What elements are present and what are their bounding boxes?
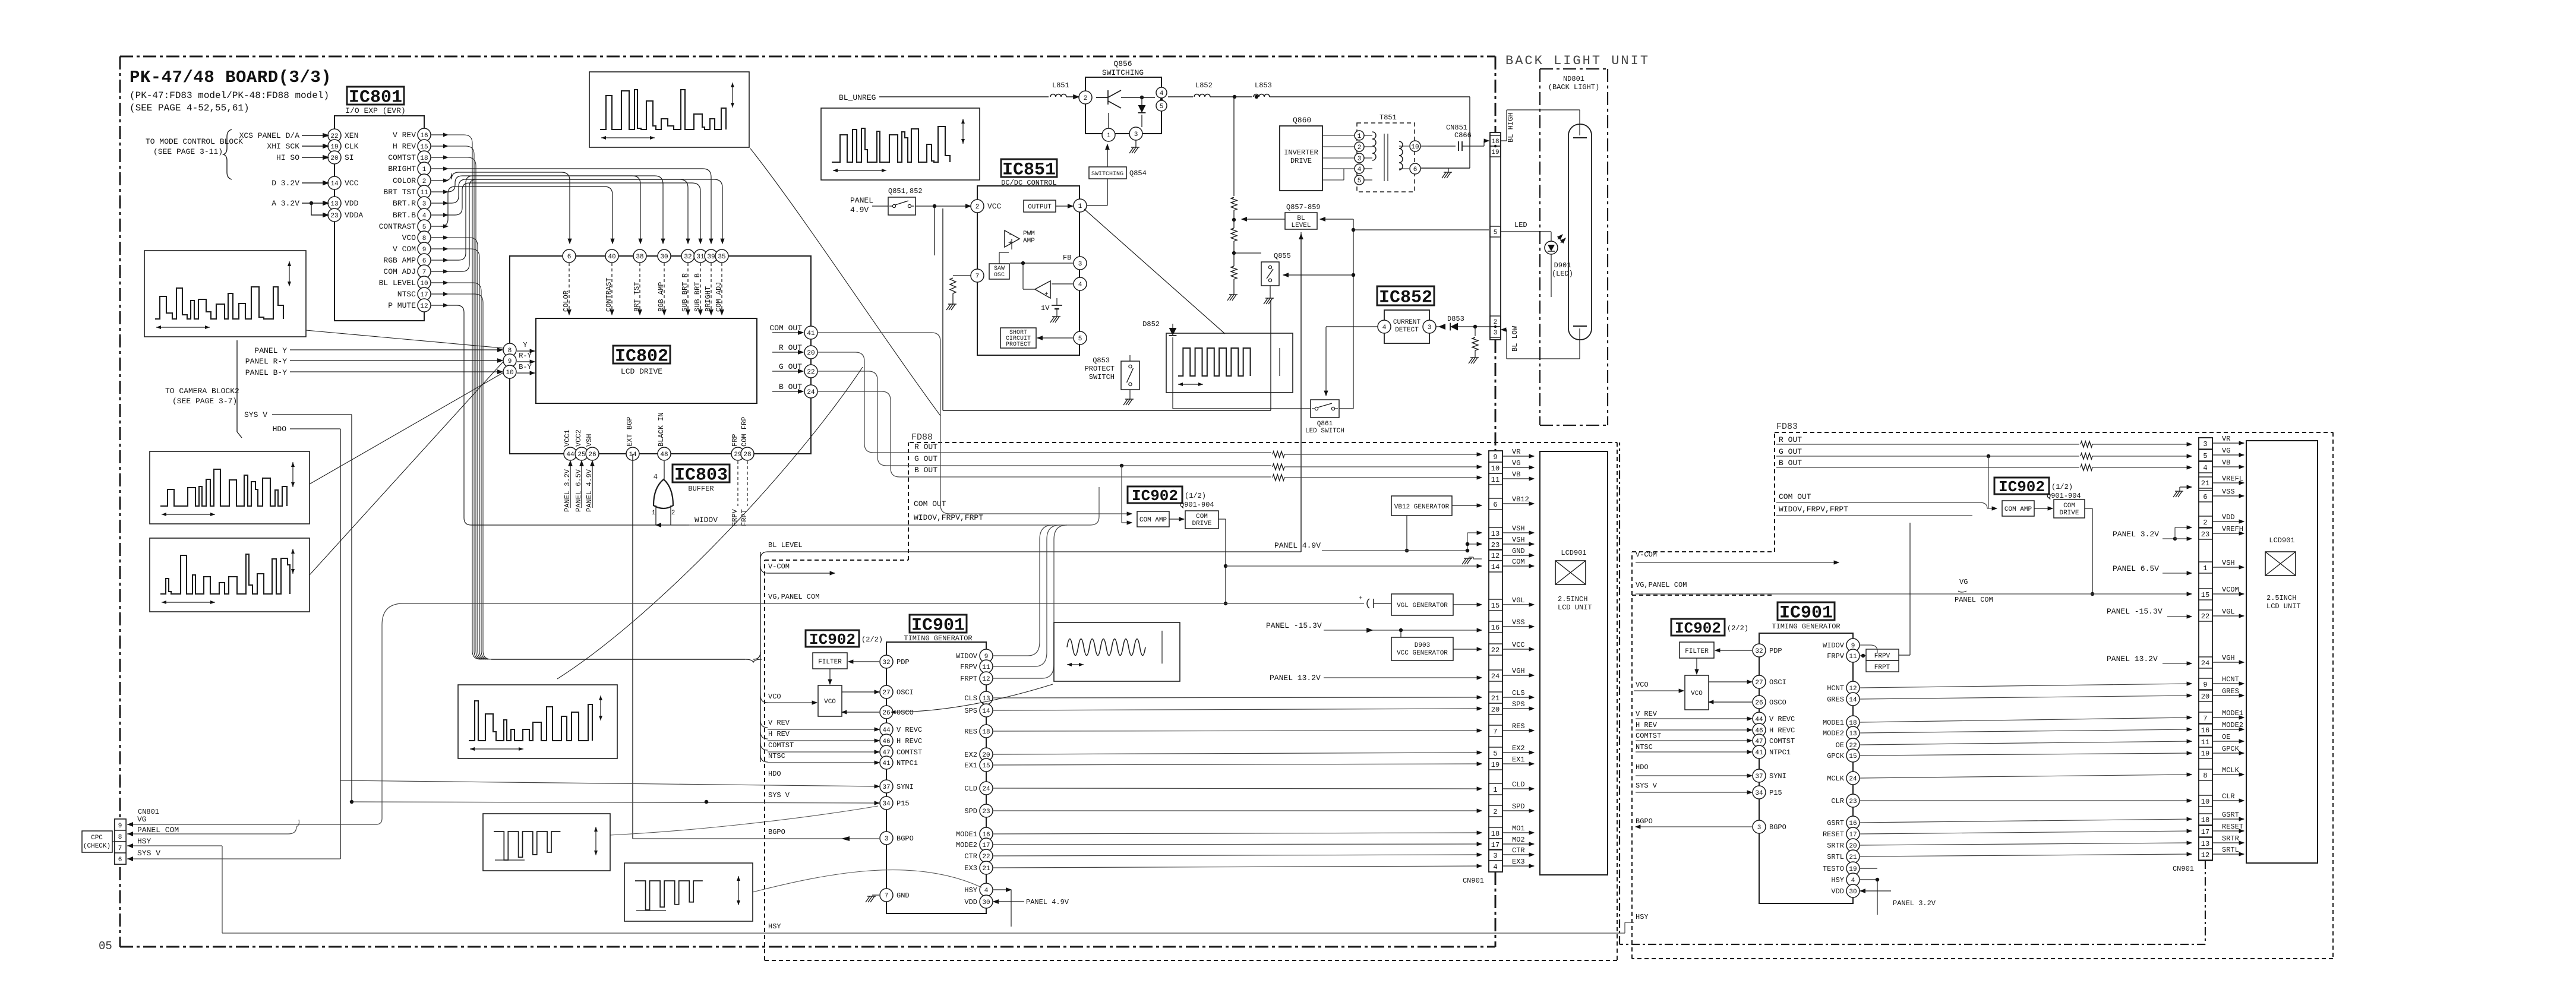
svg-text:V REV: V REV — [768, 719, 790, 727]
svg-text:MCLK: MCLK — [2222, 766, 2240, 775]
svg-text:14: 14 — [330, 181, 339, 188]
svg-text:WIDOV: WIDOV — [1823, 641, 1845, 650]
svg-text:HI SO: HI SO — [276, 153, 299, 162]
svg-text:3: 3 — [1078, 261, 1082, 268]
svg-text:CN901: CN901 — [2173, 865, 2194, 873]
svg-text:FRPV: FRPV — [1874, 653, 1890, 660]
svg-text:2: 2 — [976, 204, 980, 211]
svg-text:B-Y: B-Y — [519, 363, 532, 371]
svg-text:BUFFER: BUFFER — [688, 485, 714, 493]
svg-text:(LED): (LED) — [1552, 270, 1573, 278]
svg-text:7: 7 — [976, 273, 980, 280]
svg-text:R OUT: R OUT — [779, 343, 802, 352]
svg-text:OSCO: OSCO — [896, 709, 914, 717]
svg-text:16: 16 — [1491, 624, 1499, 632]
svg-text:RGB AMP: RGB AMP — [657, 282, 665, 312]
svg-text:34: 34 — [882, 801, 891, 808]
svg-text:R OUT: R OUT — [1779, 435, 1802, 444]
svg-text:31: 31 — [696, 254, 705, 261]
svg-text:P15: P15 — [1769, 789, 1782, 797]
svg-text:SAW: SAW — [994, 265, 1005, 272]
svg-text:CLR: CLR — [1831, 797, 1844, 805]
svg-text:PANEL Y: PANEL Y — [254, 346, 287, 355]
svg-text:7: 7 — [885, 893, 889, 900]
svg-text:SRTL: SRTL — [1827, 853, 1844, 861]
svg-text:G OUT: G OUT — [914, 454, 937, 463]
svg-text:PANEL 13.2V: PANEL 13.2V — [2107, 655, 2158, 663]
svg-text:11: 11 — [1849, 653, 1857, 660]
svg-text:20: 20 — [807, 350, 815, 357]
svg-text:7: 7 — [1493, 728, 1497, 736]
svg-text:VDD: VDD — [964, 898, 977, 906]
svg-text:4: 4 — [1493, 863, 1497, 871]
svg-text:RESET: RESET — [1823, 830, 1844, 839]
svg-text:Q856: Q856 — [1113, 59, 1132, 68]
svg-text:BL LOW: BL LOW — [1511, 325, 1519, 352]
svg-text:COLOR: COLOR — [393, 176, 416, 185]
svg-text:39: 39 — [707, 254, 715, 261]
svg-text:A 3.2V: A 3.2V — [272, 199, 299, 208]
svg-text:(2/2): (2/2) — [861, 636, 883, 644]
svg-text:VGL: VGL — [2222, 608, 2235, 616]
svg-text:22: 22 — [1849, 742, 1857, 750]
svg-text:20: 20 — [1491, 706, 1499, 714]
svg-text:NTSC: NTSC — [397, 290, 416, 299]
svg-text:PANEL 6.5V: PANEL 6.5V — [574, 469, 583, 512]
svg-text:HSY: HSY — [137, 837, 151, 846]
svg-text:MODE2: MODE2 — [956, 841, 977, 849]
svg-text:H REV: H REV — [768, 730, 790, 738]
svg-text:MODE1: MODE1 — [956, 830, 977, 839]
svg-text:WIDOV,FRPV,FRPT: WIDOV,FRPV,FRPT — [1779, 505, 1848, 514]
svg-text:MODE1: MODE1 — [1823, 719, 1844, 727]
svg-text:GRES: GRES — [2222, 687, 2239, 696]
svg-text:VDDA: VDDA — [345, 211, 363, 220]
svg-text:D903: D903 — [1415, 642, 1430, 649]
svg-text:CONTRAST: CONTRAST — [379, 222, 416, 231]
svg-text:15: 15 — [420, 144, 428, 151]
svg-text:2: 2 — [671, 510, 675, 517]
svg-text:IC802: IC802 — [615, 347, 668, 367]
svg-text:34: 34 — [1755, 790, 1763, 797]
svg-text:VCC1: VCC1 — [563, 429, 572, 447]
svg-text:FILTER: FILTER — [1685, 648, 1709, 655]
svg-text:VCO: VCO — [402, 233, 416, 242]
svg-text:(1/2): (1/2) — [2051, 483, 2073, 491]
svg-text:IC901: IC901 — [911, 616, 965, 636]
svg-text:L852: L852 — [1195, 81, 1213, 90]
svg-text:IC902: IC902 — [1132, 487, 1178, 505]
svg-text:37: 37 — [1755, 773, 1763, 780]
svg-text:MCLK: MCLK — [1827, 775, 1845, 783]
svg-text:COMTST: COMTST — [1769, 737, 1795, 745]
svg-text:VDD: VDD — [2222, 513, 2235, 521]
svg-text:4: 4 — [1160, 90, 1164, 97]
svg-text:VSH: VSH — [1512, 524, 1525, 533]
svg-text:SYS V: SYS V — [137, 849, 160, 858]
svg-text:20: 20 — [330, 155, 338, 162]
svg-text:PANEL 4.9V: PANEL 4.9V — [1274, 541, 1321, 550]
svg-text:SPS: SPS — [1512, 700, 1525, 709]
svg-text:BACK LIGHT UNIT: BACK LIGHT UNIT — [1505, 53, 1650, 68]
svg-text:HCNT: HCNT — [2222, 675, 2239, 684]
svg-text:2: 2 — [1493, 808, 1497, 816]
svg-text:VB: VB — [2222, 459, 2230, 467]
svg-text:VCC: VCC — [1512, 641, 1525, 649]
svg-text:Y: Y — [523, 341, 527, 349]
svg-text:6: 6 — [118, 856, 122, 864]
svg-text:5: 5 — [1078, 336, 1082, 343]
svg-text:4: 4 — [1851, 877, 1855, 884]
svg-text:FRPT: FRPT — [740, 509, 749, 526]
svg-text:OUTPUT: OUTPUT — [1028, 204, 1052, 211]
svg-text:8: 8 — [508, 347, 512, 355]
svg-text:18: 18 — [2201, 816, 2209, 824]
svg-text:BRIGHT: BRIGHT — [704, 286, 712, 312]
svg-text:+: + — [1044, 291, 1049, 298]
svg-text:38: 38 — [636, 254, 643, 261]
svg-text:13: 13 — [1491, 530, 1499, 538]
svg-text:T851: T851 — [1379, 113, 1397, 122]
svg-text:COM ADJ: COM ADJ — [715, 282, 723, 312]
svg-text:MODE2: MODE2 — [1823, 729, 1844, 738]
svg-text:VSH: VSH — [585, 434, 594, 447]
svg-text:HDO: HDO — [273, 425, 287, 434]
svg-text:19: 19 — [1491, 149, 1499, 156]
svg-text:BL HIGH: BL HIGH — [1507, 113, 1515, 143]
svg-text:COMTST: COMTST — [1636, 732, 1661, 740]
svg-text:GSRT: GSRT — [2222, 811, 2239, 819]
svg-text:COM: COM — [2063, 502, 2075, 510]
svg-text:14: 14 — [982, 708, 990, 715]
svg-text:PROTECT: PROTECT — [1085, 365, 1115, 373]
svg-text:PANEL R-Y: PANEL R-Y — [245, 357, 287, 366]
svg-text:19: 19 — [1849, 866, 1857, 873]
svg-text:(SEE PAGE 4-52,55,61): (SEE PAGE 4-52,55,61) — [130, 103, 250, 113]
svg-text:10: 10 — [506, 369, 513, 377]
svg-text:8: 8 — [118, 834, 122, 841]
svg-text:(PK-47:FD83 model/PK-48:FD88 m: (PK-47:FD83 model/PK-48:FD88 model) — [130, 90, 329, 101]
svg-text:VB: VB — [1512, 470, 1520, 479]
svg-text:WIDOV: WIDOV — [956, 652, 978, 660]
svg-text:LCD DRIVE: LCD DRIVE — [621, 367, 662, 376]
svg-text:V REV: V REV — [1636, 710, 1658, 718]
svg-text:13: 13 — [1849, 731, 1857, 738]
svg-text:OSCI: OSCI — [1769, 678, 1786, 687]
svg-text:VCO: VCO — [1691, 690, 1703, 697]
svg-text:SYNI: SYNI — [896, 783, 914, 791]
svg-text:CURRENT: CURRENT — [1393, 319, 1421, 326]
svg-text:19: 19 — [1491, 761, 1499, 769]
svg-text:R-Y: R-Y — [519, 352, 532, 360]
svg-text:Q855: Q855 — [1274, 252, 1291, 260]
svg-text:47: 47 — [1755, 738, 1763, 745]
svg-text:COM FRP: COM FRP — [740, 417, 749, 447]
svg-text:VCO: VCO — [768, 693, 781, 701]
svg-text:4: 4 — [654, 473, 658, 481]
svg-text:BRT.B: BRT.B — [393, 211, 416, 220]
svg-text:4: 4 — [1358, 166, 1362, 173]
svg-text:4: 4 — [1382, 324, 1387, 331]
svg-text:BL: BL — [1297, 215, 1305, 222]
svg-text:6: 6 — [567, 254, 572, 261]
svg-text:CLK: CLK — [345, 142, 359, 151]
svg-text:(1/2): (1/2) — [1185, 492, 1206, 500]
svg-text:AMP: AMP — [1023, 238, 1035, 245]
svg-text:WIDOV,FRPV,FRPT: WIDOV,FRPV,FRPT — [914, 513, 983, 522]
svg-text:NTSC: NTSC — [1636, 743, 1653, 751]
svg-text:17: 17 — [1491, 841, 1499, 849]
svg-text:46: 46 — [882, 738, 890, 745]
svg-text:2: 2 — [422, 178, 427, 185]
svg-text:FRPT: FRPT — [1874, 664, 1890, 671]
svg-text:L853: L853 — [1255, 81, 1272, 90]
svg-text:2.5INCH: 2.5INCH — [2266, 594, 2296, 602]
svg-text:1: 1 — [1358, 133, 1362, 140]
svg-text:28: 28 — [743, 451, 751, 459]
svg-text:16: 16 — [982, 832, 990, 839]
svg-text:V REVC: V REVC — [896, 726, 922, 734]
svg-text:BRT TST: BRT TST — [633, 282, 641, 312]
svg-text:IC851: IC851 — [1002, 160, 1056, 181]
svg-text:VSS: VSS — [1512, 618, 1525, 627]
svg-text:VSH: VSH — [2222, 559, 2235, 567]
svg-text:21: 21 — [982, 865, 990, 873]
svg-text:COM: COM — [1512, 558, 1525, 566]
svg-text:CLD: CLD — [1512, 780, 1525, 789]
svg-text:PANEL 4.9V: PANEL 4.9V — [1026, 898, 1069, 906]
svg-text:22: 22 — [982, 854, 990, 861]
svg-text:41: 41 — [807, 330, 815, 337]
svg-text:B OUT: B OUT — [1779, 459, 1802, 467]
svg-text:RES: RES — [964, 728, 977, 736]
svg-text:13: 13 — [330, 201, 338, 208]
svg-text:41: 41 — [1755, 750, 1763, 757]
svg-text:COMTST: COMTST — [388, 153, 416, 162]
svg-text:HSY: HSY — [1636, 913, 1649, 921]
svg-text:MO2: MO2 — [1512, 836, 1525, 844]
svg-text:6: 6 — [1413, 166, 1418, 173]
svg-text:NTPC1: NTPC1 — [896, 759, 918, 767]
svg-text:CTR: CTR — [1512, 846, 1525, 855]
svg-text:18: 18 — [420, 155, 428, 162]
svg-text:BGPO: BGPO — [1769, 823, 1786, 832]
svg-text:VGH: VGH — [2222, 654, 2235, 662]
svg-text:H REVC: H REVC — [896, 737, 922, 745]
svg-text:IC852: IC852 — [1379, 288, 1432, 308]
svg-text:BL LEVEL: BL LEVEL — [768, 541, 803, 549]
svg-text:16: 16 — [420, 132, 428, 140]
svg-text:10: 10 — [1491, 464, 1499, 473]
svg-text:VREFH: VREFH — [2222, 525, 2243, 533]
svg-text:+: + — [1359, 595, 1363, 602]
svg-text:I/O EXP (EVR): I/O EXP (EVR) — [345, 106, 405, 115]
svg-text:11: 11 — [420, 189, 428, 197]
svg-text:1: 1 — [652, 510, 656, 517]
svg-text:VGL GENERATOR: VGL GENERATOR — [1397, 602, 1448, 609]
svg-text:IC803: IC803 — [674, 466, 728, 486]
svg-text:VR: VR — [2222, 435, 2230, 443]
svg-text:25: 25 — [577, 451, 585, 459]
svg-text:22: 22 — [807, 369, 815, 376]
svg-text:H REV: H REV — [1636, 721, 1658, 729]
svg-text:VG: VG — [2222, 447, 2230, 455]
svg-text:PANEL 3.2V: PANEL 3.2V — [563, 469, 572, 512]
svg-text:PK-47/48 BOARD(3/3): PK-47/48 BOARD(3/3) — [130, 68, 332, 87]
svg-text:PANEL: PANEL — [850, 196, 873, 205]
svg-text:L851: L851 — [1052, 81, 1069, 90]
svg-text:10: 10 — [2201, 798, 2209, 806]
svg-text:Q901-904: Q901-904 — [2047, 492, 2081, 500]
svg-text:CLS: CLS — [1512, 689, 1525, 697]
svg-text:3: 3 — [1494, 330, 1498, 337]
svg-text:CLR: CLR — [2222, 792, 2235, 801]
svg-text:HSY: HSY — [768, 922, 781, 931]
svg-text:32: 32 — [684, 254, 692, 261]
svg-text:2: 2 — [2203, 519, 2207, 527]
svg-text:41: 41 — [882, 760, 891, 767]
svg-text:BL LEVEL: BL LEVEL — [379, 279, 416, 287]
svg-text:PANEL 4.9V: PANEL 4.9V — [585, 469, 594, 512]
svg-text:V REV: V REV — [393, 131, 416, 140]
svg-text:12: 12 — [1849, 685, 1857, 693]
svg-text:D901: D901 — [1554, 261, 1571, 270]
svg-text:1: 1 — [422, 166, 427, 173]
svg-text:EXT BGP: EXT BGP — [626, 417, 634, 447]
svg-text:H REVC: H REVC — [1769, 726, 1795, 735]
svg-text:EX1: EX1 — [1512, 756, 1525, 764]
svg-text:23: 23 — [330, 213, 338, 220]
svg-text:CPC: CPC — [91, 835, 103, 842]
svg-text:V-COM: V-COM — [768, 562, 790, 571]
svg-text:D852: D852 — [1142, 320, 1160, 328]
svg-text:7: 7 — [118, 845, 122, 852]
svg-text:FRP: FRP — [731, 434, 739, 447]
svg-text:30: 30 — [1849, 889, 1857, 896]
svg-text:VB12: VB12 — [1512, 495, 1529, 504]
svg-text:VG: VG — [1959, 578, 1968, 586]
svg-text:44: 44 — [882, 727, 891, 734]
svg-text:32: 32 — [1755, 648, 1763, 655]
svg-text:BRT TST: BRT TST — [383, 188, 416, 197]
svg-text:DETECT: DETECT — [1395, 327, 1419, 334]
svg-text:21: 21 — [2201, 479, 2209, 488]
svg-text:V-COM: V-COM — [1636, 551, 1657, 559]
svg-text:XCS PANEL D/A: XCS PANEL D/A — [239, 131, 300, 140]
svg-text:TIMING GENERATOR: TIMING GENERATOR — [904, 634, 972, 643]
svg-text:RESET: RESET — [2222, 823, 2243, 831]
svg-text:VCOM: VCOM — [2222, 586, 2239, 594]
svg-text:VB12 GENERATOR: VB12 GENERATOR — [1394, 504, 1450, 511]
svg-text:48: 48 — [660, 451, 668, 459]
svg-text:24: 24 — [1849, 776, 1857, 783]
svg-text:VCC: VCC — [987, 202, 1002, 211]
svg-text:COM AMP: COM AMP — [1139, 517, 1167, 524]
svg-text:11: 11 — [1491, 476, 1499, 484]
svg-text:44: 44 — [566, 451, 574, 459]
svg-text:DRIVE: DRIVE — [2059, 510, 2079, 517]
svg-text:H REV: H REV — [393, 142, 416, 151]
svg-text:VR: VR — [1512, 448, 1520, 456]
svg-text:23: 23 — [2201, 530, 2209, 539]
svg-text:27: 27 — [1755, 679, 1763, 687]
svg-text:15: 15 — [982, 763, 990, 770]
svg-text:13: 13 — [2201, 840, 2209, 848]
svg-text:COM OUT: COM OUT — [769, 324, 802, 333]
svg-text:SWITCHING: SWITCHING — [1102, 68, 1144, 77]
svg-text:FD83: FD83 — [1776, 422, 1798, 432]
svg-text:20: 20 — [1849, 843, 1857, 850]
svg-text:PANEL B-Y: PANEL B-Y — [245, 368, 287, 377]
svg-text:3: 3 — [885, 836, 889, 843]
svg-text:BLACK IN: BLACK IN — [657, 412, 665, 447]
svg-text:10: 10 — [420, 280, 428, 287]
svg-text:D853: D853 — [1447, 315, 1464, 323]
svg-text:V REVC: V REVC — [1769, 715, 1795, 723]
svg-text:COM OUT: COM OUT — [914, 500, 946, 508]
svg-text:1V: 1V — [1041, 304, 1050, 312]
svg-text:30: 30 — [982, 899, 990, 906]
svg-text:VG,PANEL COM: VG,PANEL COM — [768, 593, 819, 601]
svg-text:5: 5 — [1160, 103, 1164, 110]
svg-text:IC902: IC902 — [1675, 619, 1721, 637]
svg-text:-: - — [1008, 232, 1012, 239]
svg-text:VGL: VGL — [1512, 596, 1525, 605]
svg-text:TIMING GENERATOR: TIMING GENERATOR — [1772, 622, 1840, 631]
svg-text:VDD: VDD — [345, 199, 359, 208]
svg-text:CLS: CLS — [964, 694, 977, 703]
svg-text:B OUT: B OUT — [914, 466, 937, 475]
svg-text:PANEL COM: PANEL COM — [1955, 596, 1993, 604]
svg-text:3: 3 — [1358, 156, 1362, 163]
svg-text:GND: GND — [896, 892, 910, 900]
svg-text:SPS: SPS — [964, 707, 977, 715]
svg-text:SYS V: SYS V — [768, 791, 790, 799]
svg-text:SWITCHING: SWITCHING — [1091, 171, 1123, 178]
svg-text:LCD UNIT: LCD UNIT — [2266, 602, 2301, 611]
svg-text:VG,PANEL COM: VG,PANEL COM — [1636, 581, 1687, 589]
svg-text:6: 6 — [422, 258, 427, 265]
svg-text:24: 24 — [2201, 659, 2209, 668]
svg-text:16: 16 — [2201, 726, 2209, 735]
svg-text:HDO: HDO — [1636, 763, 1649, 772]
svg-text:1: 1 — [1078, 203, 1082, 210]
svg-text:26: 26 — [588, 451, 596, 459]
svg-text:GND: GND — [1512, 547, 1525, 555]
svg-text:TO CAMERA BLOCK2: TO CAMERA BLOCK2 — [165, 387, 239, 396]
svg-text:24: 24 — [1491, 672, 1499, 681]
svg-text:VCO: VCO — [824, 698, 836, 706]
svg-text:VREFL: VREFL — [2222, 475, 2243, 483]
svg-text:18: 18 — [1849, 720, 1857, 727]
svg-text:R OUT: R OUT — [914, 442, 937, 451]
svg-text:19: 19 — [2201, 750, 2209, 758]
svg-text:CN851: CN851 — [1446, 124, 1467, 132]
svg-text:VG: VG — [1512, 459, 1520, 467]
svg-text:PANEL 6.5V: PANEL 6.5V — [2113, 564, 2159, 573]
svg-text:6: 6 — [1493, 501, 1497, 509]
svg-text:COM AMP: COM AMP — [2004, 506, 2032, 513]
svg-text:1: 1 — [1107, 132, 1111, 140]
svg-text:VSS: VSS — [2222, 488, 2235, 496]
svg-text:(2/2): (2/2) — [1727, 624, 1748, 633]
svg-text:21: 21 — [1849, 854, 1857, 861]
svg-text:8: 8 — [422, 235, 427, 242]
svg-text:46: 46 — [1755, 728, 1763, 735]
svg-text:FD88: FD88 — [911, 432, 933, 442]
svg-text:HCNT: HCNT — [1827, 684, 1844, 693]
svg-text:PANEL COM: PANEL COM — [137, 826, 179, 835]
